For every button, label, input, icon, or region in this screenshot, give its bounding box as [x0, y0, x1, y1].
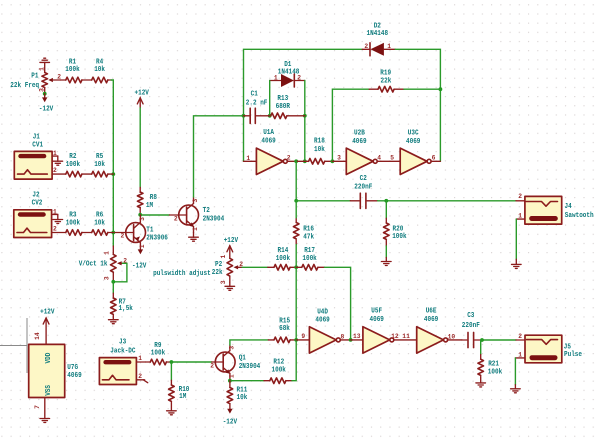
- svg-text:1: 1: [246, 155, 250, 162]
- svg-text:100k: 100k: [488, 368, 502, 376]
- resistor R11: [227, 381, 247, 409]
- svg-text:100k: 100k: [272, 367, 286, 375]
- diode D2 1N4148: [362, 22, 395, 56]
- svg-text:U4D: U4D: [317, 308, 328, 316]
- cursor crosshair: [0, 318, 27, 373]
- wire Q1 collector to R15: [230, 340, 268, 345]
- svg-text:2N3904: 2N3904: [203, 216, 225, 224]
- svg-text:VSS: VSS: [45, 385, 53, 396]
- svg-text:U3C: U3C: [408, 130, 419, 138]
- ground J1 pin1: [53, 156, 63, 165]
- resistor R15: [268, 318, 296, 343]
- potentiometer P1: [10, 67, 61, 94]
- wire R19 right to junction: [404, 88, 441, 90]
- svg-text:7: 7: [34, 405, 41, 409]
- junction R13 right: [303, 114, 307, 118]
- power -12V (P1): [39, 94, 54, 114]
- svg-text:2.2 nF: 2.2 nF: [246, 99, 268, 107]
- junction pin9 node: [294, 338, 298, 342]
- svg-text:Pulse: Pulse: [564, 351, 582, 359]
- wire C2 to J4: [378, 200, 516, 202]
- resistor R10: [169, 380, 190, 411]
- svg-text:5: 5: [390, 154, 394, 161]
- svg-text:2: 2: [121, 233, 125, 240]
- svg-text:2: 2: [53, 226, 57, 233]
- wire R16 to R14 junction: [295, 245, 297, 268]
- trimmer V/Oct 1k: [79, 246, 128, 282]
- wire Q1 emitter to R12: [230, 380, 264, 382]
- potentiometer P2: [212, 255, 244, 285]
- svg-text:D2: D2: [374, 22, 381, 30]
- svg-text:U2B: U2B: [354, 130, 365, 138]
- svg-text:100k: 100k: [66, 219, 80, 227]
- wire to R7: [112, 282, 114, 293]
- wire R17 to U4D/U5F node: [325, 267, 351, 340]
- wire R4 to CV bus: [111, 80, 113, 246]
- svg-text:J1: J1: [33, 133, 40, 141]
- svg-text:4069: 4069: [352, 138, 366, 146]
- svg-text:100k: 100k: [276, 255, 290, 263]
- svg-text:2: 2: [297, 74, 301, 81]
- wire V/Oct wiper loop: [113, 263, 127, 282]
- resistor R17: [296, 247, 324, 270]
- svg-text:U1A: U1A: [263, 129, 274, 137]
- junction R14/R16/R17: [294, 265, 298, 269]
- svg-text:1: 1: [53, 208, 57, 215]
- wire J4 pin1 to ground: [515, 219, 517, 259]
- capacitor C2: [350, 175, 377, 209]
- svg-text:2: 2: [518, 193, 522, 200]
- svg-text:1M: 1M: [179, 393, 186, 401]
- svg-text:220nF: 220nF: [354, 184, 372, 192]
- svg-text:1M: 1M: [146, 202, 153, 210]
- wire R20 to ground: [385, 246, 387, 258]
- svg-text:100k: 100k: [66, 161, 80, 169]
- svg-text:10k: 10k: [94, 66, 105, 74]
- svg-text:8: 8: [341, 334, 345, 341]
- wire U1A node to R16: [295, 201, 297, 218]
- svg-text:6: 6: [432, 155, 436, 162]
- resistor R13: [271, 95, 305, 119]
- junction Q1 emitter node: [228, 379, 232, 383]
- svg-text:1: 1: [274, 74, 278, 81]
- svg-text:3: 3: [192, 199, 199, 203]
- junction P1 pin3: [43, 92, 47, 96]
- svg-text:C1: C1: [251, 91, 258, 99]
- svg-text:13: 13: [353, 333, 361, 340]
- svg-text:1: 1: [139, 244, 146, 248]
- svg-text:R18: R18: [314, 137, 325, 145]
- IC power U7G 4069: [29, 332, 82, 418]
- connector J1: [14, 133, 66, 179]
- resistor R19: [369, 69, 404, 92]
- wire D1 cathode down: [304, 81, 306, 162]
- wire junction to Q1 base: [171, 361, 211, 363]
- junction R9/R10: [170, 360, 174, 364]
- svg-text:14: 14: [34, 332, 41, 340]
- resistor R12: [264, 359, 292, 384]
- svg-text:4069: 4069: [424, 316, 438, 324]
- svg-text:R12: R12: [273, 359, 284, 367]
- inverter U2B 4069: [332, 130, 400, 175]
- svg-text:2N3904: 2N3904: [239, 363, 261, 371]
- svg-text:4069: 4069: [370, 316, 384, 324]
- wire feedback left/top: [244, 49, 363, 161]
- svg-text:pulswidth adjust: pulswidth adjust: [153, 270, 211, 278]
- svg-text:R11: R11: [237, 386, 248, 394]
- svg-text:R21: R21: [488, 360, 499, 368]
- resistor R3: [66, 211, 92, 235]
- transistor T2 2N3904: [170, 197, 225, 233]
- wire J5 pin1 to ground: [514, 358, 516, 385]
- svg-text:R8: R8: [150, 194, 157, 202]
- wire R12 up to pin9 node: [292, 340, 296, 381]
- svg-text:R16: R16: [303, 225, 314, 233]
- svg-text:3: 3: [104, 276, 111, 280]
- svg-text:R14: R14: [278, 247, 289, 255]
- power +12V (R8): [135, 89, 150, 108]
- resistor R14: [268, 247, 296, 270]
- svg-text:V/Oct 1k: V/Oct 1k: [79, 260, 108, 268]
- ground T2 emitter: [189, 233, 199, 241]
- junction C3/R21: [480, 338, 484, 342]
- svg-text:2: 2: [174, 216, 178, 223]
- svg-text:Sawtooth: Sawtooth: [565, 212, 594, 220]
- svg-text:220nF: 220nF: [462, 322, 480, 330]
- svg-text:100k: 100k: [151, 349, 165, 357]
- svg-text:1: 1: [518, 213, 522, 220]
- resistor R16: [293, 218, 314, 245]
- svg-text:1: 1: [138, 355, 142, 362]
- resistor R6: [92, 211, 114, 235]
- svg-text:T2: T2: [203, 207, 210, 215]
- junction R19/D2: [439, 87, 443, 91]
- connector J4 Sawtooth: [516, 193, 594, 224]
- svg-text:CV1: CV1: [32, 141, 43, 149]
- inverter U6E 4069: [402, 308, 462, 354]
- resistor R4: [92, 58, 112, 83]
- wire P2 wiper to R14: [242, 266, 268, 268]
- resistor R9: [146, 342, 172, 365]
- svg-text:100k: 100k: [302, 255, 316, 263]
- svg-text:R3: R3: [69, 211, 76, 219]
- svg-text:1: 1: [518, 351, 522, 358]
- svg-text:J3: J3: [119, 338, 126, 346]
- resistor R20: [384, 218, 407, 246]
- svg-text:4069: 4069: [67, 372, 81, 380]
- svg-text:C3: C3: [467, 312, 474, 320]
- transistor T1 2N3906: [115, 215, 168, 250]
- svg-text:R5: R5: [96, 153, 103, 161]
- resistor R18: [296, 137, 332, 164]
- junction R5/bus: [111, 172, 115, 176]
- svg-text:3: 3: [139, 217, 146, 221]
- svg-text:100k: 100k: [392, 233, 406, 241]
- svg-text:P1: P1: [31, 72, 38, 80]
- svg-text:10k: 10k: [94, 161, 105, 169]
- svg-text:2N3906: 2N3906: [146, 234, 168, 242]
- svg-text:+12V: +12V: [224, 237, 239, 245]
- svg-text:1: 1: [192, 227, 199, 231]
- resistor R7: [111, 293, 133, 320]
- svg-text:680R: 680R: [276, 103, 291, 111]
- svg-text:U7G: U7G: [67, 364, 78, 372]
- svg-text:2: 2: [364, 43, 368, 50]
- junction V/Oct pin3: [111, 280, 115, 284]
- ground J2 pin1: [53, 214, 63, 223]
- svg-text:Q1: Q1: [239, 354, 246, 362]
- svg-text:22k: 22k: [381, 77, 392, 85]
- svg-text:10k: 10k: [94, 219, 105, 227]
- svg-text:R4: R4: [96, 58, 103, 66]
- svg-text:100k: 100k: [65, 66, 79, 74]
- svg-text:22k: 22k: [212, 269, 223, 277]
- wire junction to R21: [480, 340, 482, 355]
- svg-text:R1: R1: [69, 58, 76, 66]
- wire C2 left: [296, 200, 350, 202]
- wire junction to R10: [170, 362, 172, 380]
- power -12V (T1): [132, 249, 147, 270]
- wire D2 to U3C output: [395, 49, 440, 161]
- connector J5 Pulse: [515, 333, 582, 363]
- svg-text:3: 3: [229, 346, 236, 350]
- junction U1A out: [294, 159, 298, 163]
- inverter U1A 4069: [244, 129, 297, 174]
- wire U1A out down to C2 node: [295, 161, 297, 201]
- svg-text:R6: R6: [96, 211, 103, 219]
- svg-text:T1: T1: [146, 227, 153, 235]
- svg-text:R17: R17: [304, 247, 315, 255]
- svg-text:1: 1: [39, 67, 46, 71]
- power -12V (R11): [223, 409, 238, 427]
- connector J2: [14, 191, 66, 237]
- wire D1 anode down: [269, 81, 271, 116]
- svg-text:3: 3: [220, 280, 227, 284]
- wire junction to T2 base: [140, 214, 169, 216]
- svg-text:U5F: U5F: [371, 308, 382, 316]
- svg-text:3: 3: [337, 155, 341, 162]
- svg-text:2: 2: [518, 333, 522, 340]
- transistor Q1 2N3904: [210, 345, 260, 381]
- svg-text:12: 12: [391, 333, 399, 340]
- resistor R1: [61, 58, 92, 83]
- resistor R2: [66, 153, 92, 177]
- junction R6/bus: [111, 231, 115, 235]
- svg-text:3: 3: [39, 88, 46, 92]
- svg-text:2: 2: [287, 154, 291, 161]
- svg-text:1: 1: [387, 43, 391, 50]
- svg-text:1: 1: [53, 150, 57, 157]
- ground U7G: [40, 419, 50, 423]
- svg-text:1,5k: 1,5k: [119, 305, 133, 313]
- svg-text:22k Freq: 22k Freq: [10, 82, 39, 90]
- svg-text:U6E: U6E: [426, 308, 437, 316]
- svg-text:10: 10: [448, 334, 456, 341]
- svg-text:10k: 10k: [314, 146, 325, 154]
- wire C3 to J5: [482, 339, 516, 341]
- ground R10: [167, 411, 177, 415]
- junction U4D out: [349, 338, 353, 342]
- wire R19 left leg: [332, 89, 369, 161]
- svg-text:-12V: -12V: [39, 106, 54, 114]
- ground R20: [382, 258, 392, 266]
- svg-text:+12V: +12V: [40, 308, 55, 316]
- svg-text:J4: J4: [565, 203, 572, 211]
- ground J5: [511, 385, 521, 393]
- junction C2/R20: [384, 199, 388, 203]
- svg-text:J2: J2: [32, 191, 39, 199]
- svg-text:+12V: +12V: [135, 89, 150, 97]
- svg-text:2: 2: [53, 167, 57, 174]
- svg-text:P2: P2: [215, 261, 222, 269]
- svg-text:R2: R2: [69, 153, 76, 161]
- svg-text:-12V: -12V: [223, 418, 238, 426]
- junction D1 leg at U1A out: [303, 159, 307, 163]
- connector J3 Jack-DC: [99, 338, 147, 384]
- junction C2 left node: [294, 199, 298, 203]
- ground R7: [109, 320, 119, 324]
- ground above P1: [40, 58, 50, 72]
- resistor R5: [92, 153, 114, 177]
- wire +12V to R8: [139, 108, 141, 188]
- svg-text:2: 2: [138, 373, 142, 380]
- capacitor C1: [244, 91, 270, 124]
- svg-text:9: 9: [301, 333, 305, 340]
- svg-text:VDD: VDD: [45, 353, 53, 364]
- svg-text:R19: R19: [380, 69, 391, 77]
- svg-text:4069: 4069: [261, 137, 275, 145]
- svg-text:4069: 4069: [406, 138, 420, 146]
- wire R14 junction down to pin9 node: [295, 267, 297, 340]
- inverter U3C 4069: [390, 130, 440, 175]
- svg-text:2: 2: [210, 363, 214, 370]
- svg-text:C2: C2: [360, 175, 367, 183]
- svg-text:68k: 68k: [279, 325, 290, 333]
- junction R8/T1/T2: [138, 213, 142, 217]
- svg-text:1N4148: 1N4148: [367, 30, 389, 38]
- capacitor C3: [462, 312, 481, 347]
- wire T2 collector to C1 node: [194, 116, 244, 197]
- svg-text:47k: 47k: [303, 234, 314, 242]
- svg-text:CV2: CV2: [32, 199, 43, 207]
- svg-text:1: 1: [220, 255, 227, 259]
- svg-text:10k: 10k: [237, 394, 248, 402]
- junction D1/R13 left: [268, 114, 272, 118]
- resistor R21: [478, 355, 502, 383]
- power +12V (P2): [224, 237, 239, 258]
- wire junction to R20: [385, 201, 387, 219]
- inverter U5F 4069: [351, 308, 417, 354]
- diode D1 1N4148: [270, 61, 305, 87]
- power +12V (U7G): [40, 308, 55, 344]
- svg-text:1: 1: [229, 374, 236, 378]
- svg-text:Jack-DC: Jack-DC: [110, 348, 135, 356]
- svg-text:1N4148: 1N4148: [278, 69, 300, 77]
- svg-text:1: 1: [104, 251, 111, 255]
- resistor R8: [137, 187, 157, 214]
- ground J4: [512, 259, 522, 268]
- svg-text:4: 4: [377, 154, 381, 161]
- svg-text:4069: 4069: [315, 317, 329, 325]
- svg-text:D1: D1: [284, 61, 291, 69]
- junction U2B input: [331, 159, 335, 163]
- junction C1 node: [242, 114, 246, 118]
- svg-text:R13: R13: [277, 95, 288, 103]
- ground P2: [225, 282, 235, 290]
- svg-text:11: 11: [402, 333, 410, 340]
- ground R21: [476, 383, 486, 387]
- svg-text:-12V: -12V: [132, 263, 147, 271]
- inverter U4D 4069: [296, 308, 350, 353]
